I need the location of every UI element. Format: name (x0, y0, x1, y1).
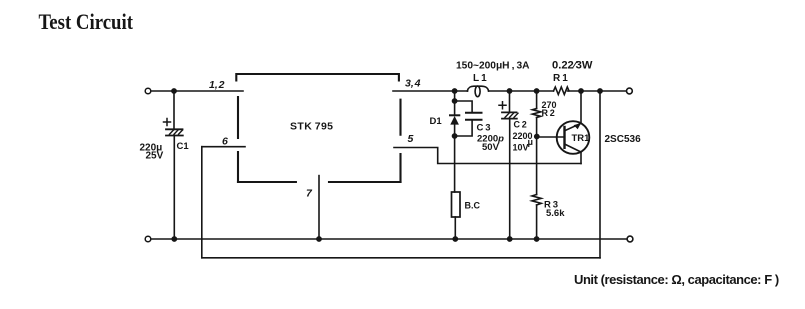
svg-text:R 1: R 1 (553, 73, 568, 84)
resistor R3 zigzag (532, 195, 541, 206)
node junction C1 bottom (171, 236, 177, 242)
capacitor C2 plates (502, 112, 517, 118)
capacitor C2 lead lower (509, 119, 511, 239)
node junction C1/top rail (171, 88, 177, 94)
terminal bottom-right (627, 236, 633, 242)
node junction B.C bottom (452, 236, 458, 242)
transistor TR1 collector lead down (580, 152, 582, 164)
node junction collector top (578, 88, 584, 94)
inductor L1 (467, 86, 488, 91)
transistor TR1 circle (557, 121, 590, 154)
svg-text:Unit (resistance: Ω, capacitan: Unit (resistance: Ω, capacitance: F ) (574, 272, 779, 287)
svg-text:50V: 50V (482, 142, 500, 153)
capacitor C3 bottom hook wire (455, 120, 473, 136)
node junction D1/C3 top (452, 98, 458, 104)
svg-text:1, 2: 1, 2 (209, 79, 225, 91)
node junction D1 top (452, 88, 458, 94)
svg-text:TR1: TR1 (572, 133, 591, 144)
capacitor C1 lead upper (173, 91, 175, 129)
svg-text:C 2: C 2 (514, 120, 527, 130)
node junction C2 top (507, 88, 513, 94)
op-amp U1 STK795 box left edge (237, 97, 239, 182)
capacitor C2 plus sign (499, 102, 506, 109)
node junction C2 bottom (507, 236, 513, 242)
terminal bottom-left (145, 236, 151, 242)
svg-text:10V: 10V (513, 143, 529, 153)
svg-text:2SC536: 2SC536 (605, 134, 642, 145)
wire feedback vertical right (599, 91, 601, 258)
capacitor C2 lead upper (509, 91, 511, 112)
node junction R2 top (534, 88, 540, 94)
node junction R3 bottom (534, 236, 540, 242)
bottom rail (151, 238, 627, 240)
wire top rail left (terminal to pin 1,2) (151, 90, 243, 92)
capacitor C1 plates (166, 129, 183, 135)
terminal input top-left (145, 88, 151, 94)
svg-text:D1: D1 (430, 116, 443, 127)
transistor TR1 base bar (563, 127, 565, 148)
svg-text:R 2: R 2 (542, 108, 555, 118)
resistor R2 zigzag (532, 109, 540, 118)
svg-text:25V: 25V (146, 151, 164, 162)
pin 6 wire (202, 146, 245, 148)
svg-text:0.22⁄3W: 0.22⁄3W (552, 60, 593, 72)
diode D1 cathode bar (450, 114, 459, 116)
diode D1 triangle (450, 116, 459, 125)
capacitor C3 top hook wire (455, 101, 473, 113)
wire pin 6 feedback vertical (201, 147, 203, 258)
pin 5 wire (394, 148, 581, 164)
resistor R2 lead lower (536, 118, 538, 195)
pin 7 wire (318, 176, 320, 239)
capacitor C3 plates (466, 113, 482, 120)
pin 3,4 wire / top rail right (393, 90, 627, 92)
transistor TR1 emitter lead to rail (580, 91, 582, 123)
svg-text:Test Circuit: Test Circuit (39, 9, 134, 34)
resistor R3 lead lower (536, 205, 538, 239)
resistor R1 zigzag (554, 87, 570, 95)
svg-text:150~200μH , 3A: 150~200μH , 3A (456, 61, 530, 72)
op-amp U1 STK795 box bottom edge (238, 181, 401, 183)
svg-text:μ: μ (528, 137, 534, 147)
svg-text:5.6k: 5.6k (546, 208, 565, 219)
node junction base (534, 134, 540, 140)
transistor TR1 base lead (537, 136, 565, 138)
wire feedback return bottom (202, 257, 600, 259)
diode D1 lead lower (454, 125, 456, 192)
svg-text:5: 5 (408, 133, 414, 145)
svg-text:6: 6 (222, 136, 228, 148)
svg-text:C1: C1 (177, 141, 190, 152)
load B.C lead lower (454, 217, 456, 239)
svg-text:L 1: L 1 (473, 73, 487, 84)
transistor TR1 emitter diagonal with arrow (565, 123, 581, 130)
op-amp U1 STK795 box right edge (399, 100, 401, 182)
capacitor C1 plus sign (164, 119, 171, 126)
node junction D1/C3 bottom (452, 133, 458, 139)
svg-text:STK 795: STK 795 (290, 121, 333, 133)
op-amp U1 STK795 box top edge (236, 74, 399, 81)
transistor TR1 collector diagonal (565, 144, 582, 152)
terminal output top-right (627, 88, 633, 94)
diode D1 lead upper (454, 91, 456, 115)
svg-text:C 3: C 3 (477, 123, 491, 134)
svg-text:B.C: B.C (465, 201, 481, 211)
resistor R2 lead upper (536, 91, 538, 109)
node junction feedback top (597, 88, 603, 94)
svg-text:3, 4: 3, 4 (405, 78, 421, 90)
svg-text:7: 7 (306, 188, 313, 200)
capacitor C1 lead lower (173, 136, 175, 240)
node junction pin7 bottom (316, 236, 322, 242)
load B.C box (452, 192, 461, 217)
